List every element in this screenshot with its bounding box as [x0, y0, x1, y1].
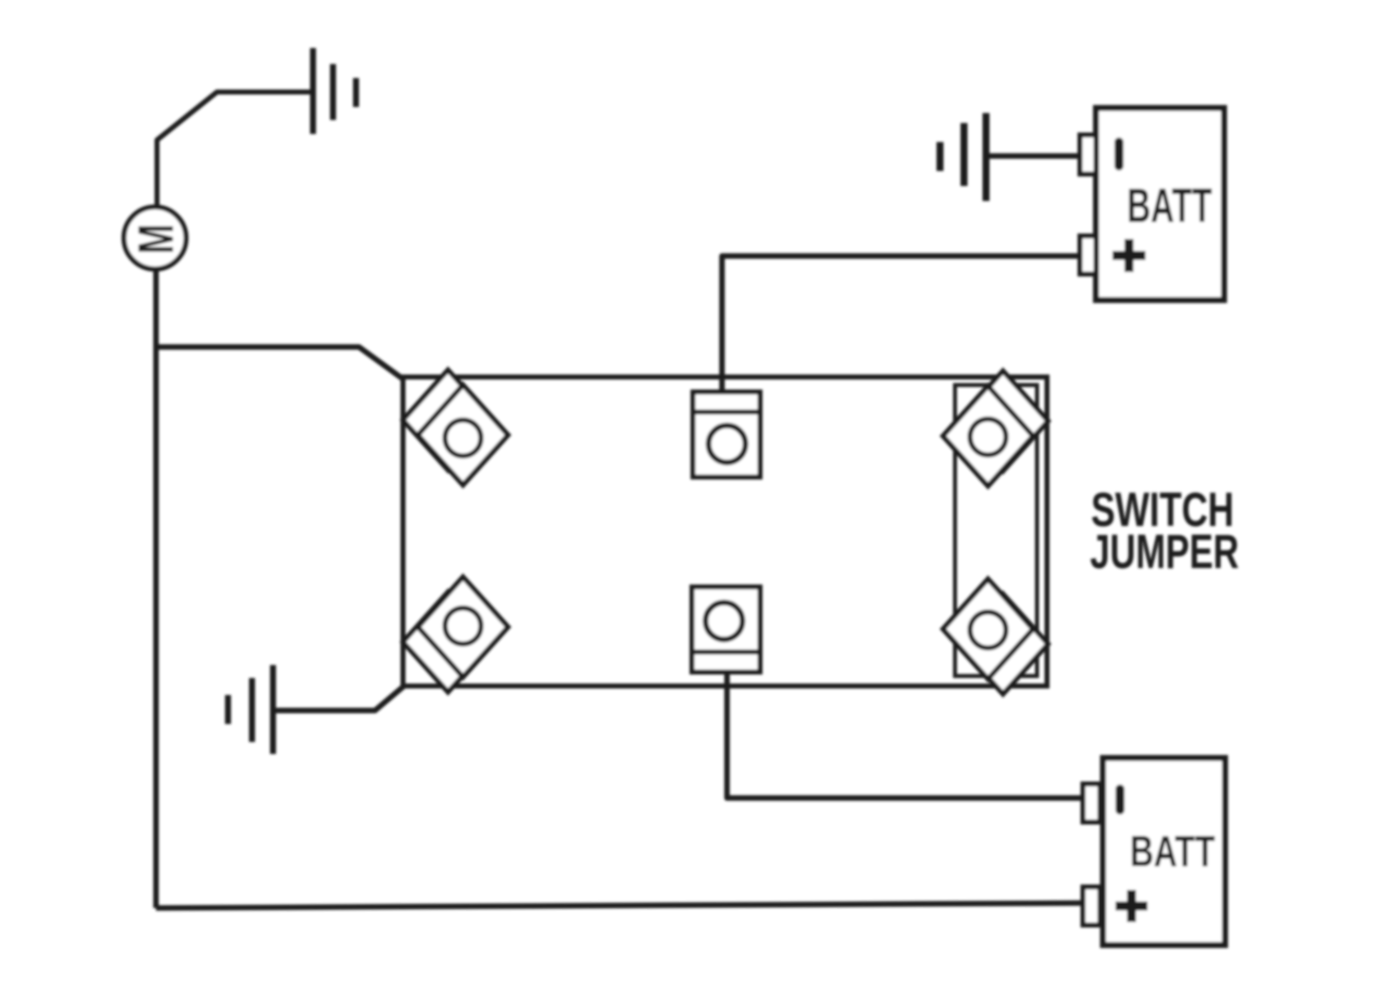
ground G2 (bottom left): [228, 665, 273, 754]
svg-text:M: M: [128, 224, 184, 254]
wire left vertical run: [153, 347, 159, 908]
wire G2 to switch bottom-left corner: [276, 686, 404, 711]
wire motor to junction: [153, 269, 159, 347]
stud terminal bottom-right: [943, 579, 1048, 694]
jumper plate: [955, 385, 1037, 676]
terminal T1 (top middle): [693, 392, 760, 477]
wire G3 to BATT1 - terminal: [989, 153, 1086, 159]
wire T1 to BATT1 + terminal: [722, 256, 1086, 392]
stud terminal top-left: [403, 370, 508, 485]
svg-text:JUMPER: JUMPER: [1090, 526, 1239, 579]
svg-text:BATT: BATT: [1127, 180, 1212, 233]
terminal T2 (bottom middle): [692, 587, 760, 672]
wire T2 to BATT2 - terminal: [727, 672, 1086, 798]
wire G1 to motor M1: [157, 92, 310, 207]
stud terminal bottom-left: [403, 577, 508, 692]
battery BATT2: [1083, 758, 1225, 945]
motor M1: [124, 207, 186, 269]
ground G3 (top right): [940, 113, 986, 201]
battery BATT1: [1080, 108, 1224, 300]
stud terminal top-right: [943, 371, 1048, 486]
svg-text:BATT: BATT: [1130, 827, 1215, 876]
label SWITCH JUMPER: [1090, 484, 1239, 579]
wire junction to switch top-left corner: [156, 347, 403, 379]
wire bottom run to BATT2 + terminal: [156, 903, 1086, 908]
ground G1 (top left): [313, 48, 356, 134]
switch S1 body: [403, 377, 1047, 686]
